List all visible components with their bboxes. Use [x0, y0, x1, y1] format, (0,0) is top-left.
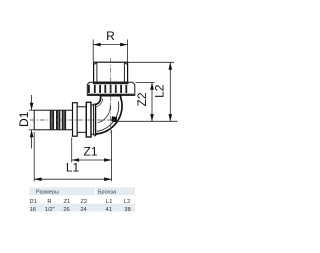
dim Z2 arrows	[150, 82, 154, 121]
svg-text:Размеры: Размеры	[36, 190, 59, 196]
union nut	[87, 82, 135, 95]
table values row background	[30, 204, 136, 212]
dim L2 line	[169, 62, 171, 121]
pipe end	[34, 110, 72, 130]
thread root lines	[94, 63, 128, 82]
dim R arrows	[93, 43, 127, 47]
dim D1 line	[31, 95, 33, 149]
label R	[106, 29, 115, 43]
svg-text:41: 41	[106, 207, 112, 213]
dim Z2 L2 extension line bottom	[116, 120, 178, 122]
svg-text:26: 26	[63, 207, 69, 213]
label Z1	[83, 145, 97, 159]
dim L2 arrows	[169, 62, 173, 121]
dim L2 extension line top	[128, 61, 174, 63]
svg-text:Z2: Z2	[80, 199, 87, 205]
label L2	[153, 84, 167, 98]
dim R line	[93, 44, 127, 46]
dim Z1 L1 extension line right	[111, 130, 113, 181]
svg-text:Бронза: Бронза	[98, 190, 117, 196]
socket rim	[94, 104, 96, 135]
elbow body	[95, 96, 122, 135]
dim Z1 arrows	[72, 158, 112, 162]
svg-text:D1: D1	[30, 199, 37, 205]
svg-text:R: R	[106, 29, 115, 43]
svg-text:38: 38	[124, 207, 130, 213]
bead on outer bend	[111, 116, 117, 122]
table header text	[36, 190, 117, 196]
dim L1 arrows	[34, 177, 111, 181]
dim L1 line	[34, 178, 111, 180]
dim R extension lines	[93, 40, 127, 62]
label L1	[66, 161, 80, 175]
svg-text:Z2: Z2	[135, 92, 149, 106]
dim L1 extension line left	[33, 132, 35, 181]
ribs	[50, 111, 66, 130]
neck between flange and socket	[91, 105, 94, 134]
table column labels	[30, 199, 131, 205]
svg-text:24: 24	[80, 207, 86, 213]
dim D1 extension lines	[29, 110, 34, 130]
collar	[73, 103, 78, 137]
elbow contour arcs	[96, 98, 119, 131]
svg-text:R: R	[47, 199, 51, 205]
table header row background	[30, 187, 136, 195]
svg-text:1/2": 1/2"	[45, 207, 55, 213]
svg-text:L2: L2	[153, 84, 167, 98]
label D1	[17, 111, 31, 127]
dim Z2 line	[151, 82, 153, 121]
svg-text:16: 16	[30, 207, 36, 213]
male thread	[94, 62, 128, 82]
dim Z1 line	[72, 159, 112, 161]
mid pipe	[77, 107, 86, 133]
svg-text:L1: L1	[106, 199, 112, 205]
nut knurling	[88, 85, 127, 93]
svg-text:L2: L2	[124, 199, 130, 205]
dim Z1 extension line left	[71, 138, 73, 163]
label Z2	[135, 92, 149, 106]
flange	[86, 102, 91, 137]
svg-text:Z1: Z1	[83, 145, 97, 159]
table value cells	[30, 207, 131, 213]
svg-text:D1: D1	[17, 111, 31, 127]
centerline horizontal leg	[30, 119, 118, 121]
svg-text:L1: L1	[66, 161, 80, 175]
centerline vertical leg	[110, 58, 112, 133]
svg-text:Z1: Z1	[63, 199, 70, 205]
dim D1 arrows	[30, 103, 34, 137]
dim Z2 extension line top	[136, 81, 155, 83]
